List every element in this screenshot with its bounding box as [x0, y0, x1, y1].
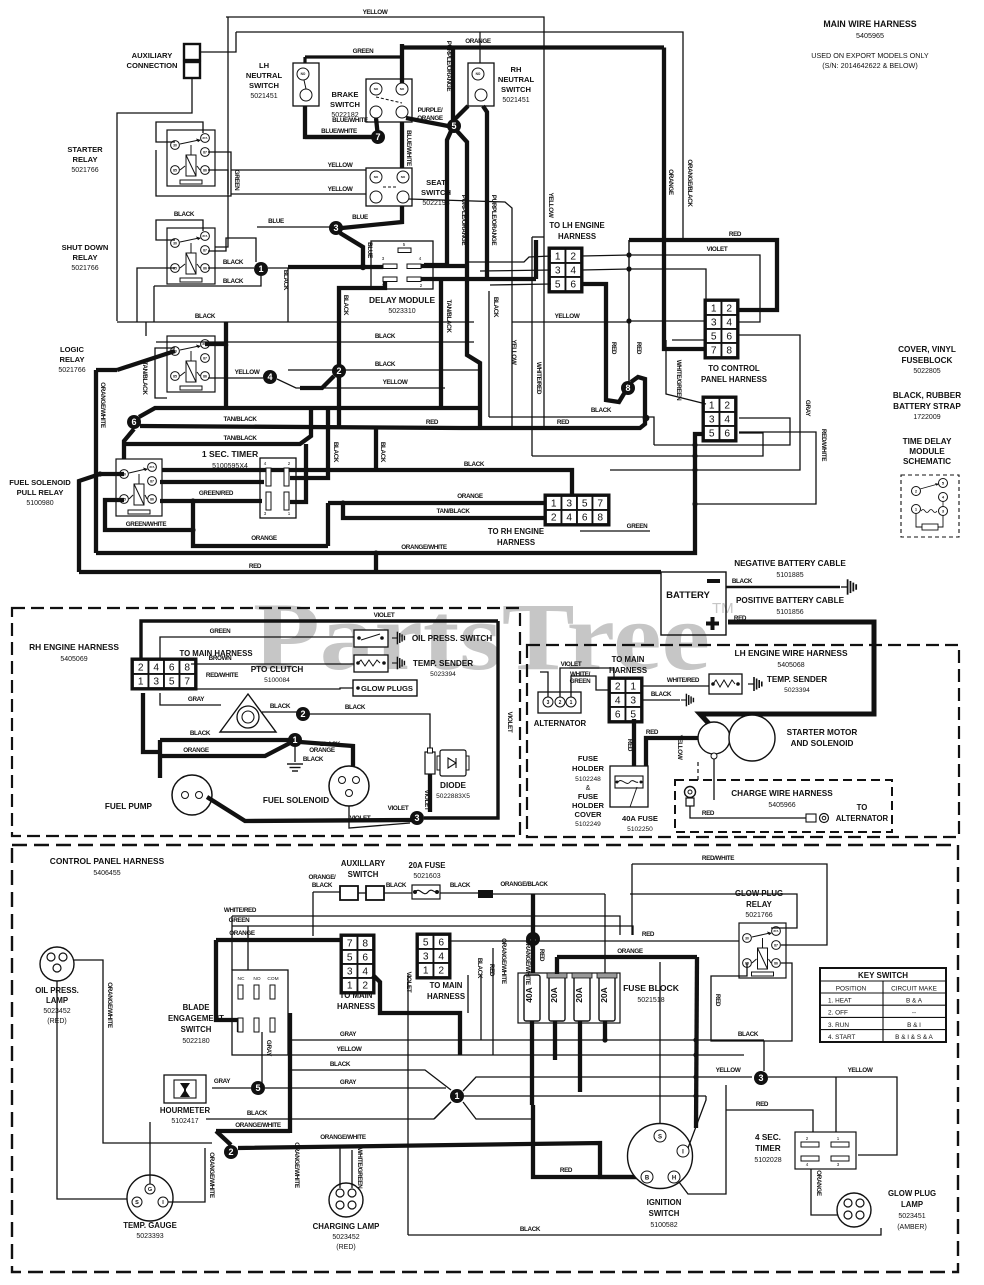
glow relay loop	[711, 963, 764, 1071]
wire alternator 3	[540, 672, 548, 697]
svg-text:VIOLET: VIOLET	[506, 712, 513, 733]
svg-text:40A: 40A	[524, 987, 534, 1003]
wire node2 diagonals	[216, 1131, 231, 1145]
wire orange timer to lamp	[811, 1169, 841, 1215]
svg-text:TO CONTROL: TO CONTROL	[708, 364, 760, 373]
wire white/green	[672, 339, 706, 341]
svg-text:BLACK: BLACK	[223, 278, 244, 285]
svg-text:6: 6	[726, 332, 732, 343]
svg-text:SWITCH: SWITCH	[330, 100, 360, 109]
svg-text:NO: NO	[400, 87, 405, 91]
svg-text:6: 6	[169, 663, 175, 674]
wire charge harness red	[690, 806, 806, 818]
svg-text:BLACK: BLACK	[330, 1061, 351, 1068]
wire thin cell1 left	[467, 256, 551, 262]
wire thick x376 down to black bus	[374, 428, 378, 470]
svg-text:YELLOW: YELLOW	[337, 1046, 362, 1053]
svg-text:5405069: 5405069	[60, 656, 87, 663]
svg-text:2: 2	[228, 1147, 233, 1157]
wire violet long vertical	[407, 975, 409, 1235]
svg-text:BLUE: BLUE	[268, 218, 284, 225]
svg-text:ORANGE/WHITE: ORANGE/WHITE	[106, 982, 113, 1028]
node 6	[127, 415, 141, 429]
wire fuse holder to starter	[646, 738, 702, 766]
wire diode down to node3	[428, 774, 432, 812]
svg-text:ORANGE/WHITE: ORANGE/WHITE	[320, 1134, 366, 1141]
svg-text:3: 3	[555, 266, 561, 277]
svg-text:5: 5	[709, 429, 715, 440]
svg-text:5021766: 5021766	[58, 367, 85, 374]
logic relay loop	[155, 348, 175, 398]
wire gray from conn6	[739, 335, 800, 470]
svg-text:87A: 87A	[203, 136, 208, 140]
svg-text:VIOLET: VIOLET	[423, 790, 430, 811]
svg-text:GRAY: GRAY	[340, 1031, 357, 1038]
wire timer pin2 right up	[290, 408, 328, 478]
wire thick node6 tan/black right	[140, 426, 461, 428]
horizontal runs mid	[288, 1039, 764, 1041]
svg-text:CIRCUIT MAKE: CIRCUIT MAKE	[891, 986, 937, 993]
wire black bottom	[408, 1228, 881, 1235]
svg-text:5102249: 5102249	[575, 821, 601, 828]
wire orange/white thick vertical	[94, 370, 98, 553]
svg-text:S: S	[658, 1134, 662, 1140]
wire yellow label mid	[512, 321, 629, 323]
svg-text:3: 3	[153, 677, 159, 688]
svg-text:30: 30	[745, 936, 749, 940]
svg-text:1: 1	[570, 700, 573, 706]
svg-text:5: 5	[555, 280, 561, 291]
fuel pump	[172, 775, 212, 815]
wire red down to ignition H	[679, 1110, 726, 1194]
fuse holder	[610, 766, 648, 807]
svg-text:FUEL PUMP: FUEL PUMP	[105, 802, 153, 811]
wire node5 up to RH switch	[454, 106, 468, 120]
wire orange thick row	[216, 938, 342, 942]
svg-text:3. RUN: 3. RUN	[828, 1022, 849, 1029]
wire node1 diag	[434, 1102, 451, 1119]
svg-text:RED: RED	[610, 342, 617, 355]
svg-text:DELAY MODULE: DELAY MODULE	[369, 295, 435, 305]
svg-text:6: 6	[362, 953, 368, 964]
node 2	[296, 707, 310, 721]
svg-text:(AMBER): (AMBER)	[897, 1224, 927, 1231]
svg-text:AUXILLARY: AUXILLARY	[341, 859, 386, 868]
svg-text:POSITIVE BATTERY CABLE: POSITIVE BATTERY CABLE	[736, 596, 845, 605]
wire relay 87 right	[781, 944, 788, 946]
svg-text:CONNECTION: CONNECTION	[126, 61, 177, 70]
svg-text:RED: RED	[702, 810, 715, 817]
wire brake sw to node5	[406, 118, 448, 126]
svg-text:6: 6	[615, 710, 621, 721]
svg-text:HOURMETER: HOURMETER	[160, 1106, 211, 1115]
wire orange/white long thick	[238, 1143, 640, 1177]
wire violet right vertical	[424, 621, 498, 818]
wire temp gauge up	[149, 1122, 151, 1184]
svg-text:FUSEBLOCK: FUSEBLOCK	[902, 356, 953, 365]
wire tan/black thick y518	[343, 503, 546, 518]
svg-text:86: 86	[203, 374, 207, 378]
svg-text:1: 1	[347, 981, 353, 992]
svg-text:BLACK: BLACK	[732, 578, 753, 585]
svg-text:5101885: 5101885	[776, 572, 803, 579]
svg-text:WHITE/RED: WHITE/RED	[535, 362, 542, 395]
wire hourmeter black	[206, 1118, 434, 1120]
svg-text:HARNESS: HARNESS	[497, 538, 535, 547]
svg-text:5022805: 5022805	[913, 368, 940, 375]
svg-text:BLACK: BLACK	[223, 259, 244, 266]
svg-text:2: 2	[336, 366, 341, 376]
svg-text:ORANGE/WHITE: ORANGE/WHITE	[524, 939, 531, 985]
wire black node2 right to diode	[309, 714, 430, 753]
svg-text:7: 7	[375, 132, 380, 142]
svg-text:4: 4	[566, 513, 572, 524]
wire seat switch yellow 2	[231, 193, 366, 195]
svg-text:NO: NO	[476, 72, 481, 76]
node7 left wire	[305, 135, 378, 139]
svg-text:YELLOW: YELLOW	[716, 1067, 741, 1074]
svg-text:BLACK: BLACK	[476, 958, 483, 979]
svg-text:GREEN: GREEN	[233, 170, 240, 191]
svg-text:AND SOLENOID: AND SOLENOID	[791, 739, 854, 748]
svg-text:VIOLET: VIOLET	[561, 661, 582, 668]
svg-text:3: 3	[547, 700, 550, 706]
svg-text:RELAY: RELAY	[746, 900, 773, 909]
seat switch box	[366, 168, 412, 206]
wire green	[305, 55, 402, 58]
wire thin x629 to node8	[628, 240, 630, 381]
wire whitered vertical	[532, 236, 544, 238]
svg-text:RED: RED	[538, 949, 545, 962]
svg-text:BLUE/WHITE: BLUE/WHITE	[321, 128, 357, 135]
svg-text:RED: RED	[714, 994, 721, 1007]
svg-text:HARNESS: HARNESS	[558, 232, 596, 241]
svg-text:5023394: 5023394	[784, 687, 810, 694]
wire black red verticals below connB	[467, 975, 469, 1013]
svg-text:ORANGE: ORANGE	[465, 38, 491, 45]
svg-text:6: 6	[570, 280, 576, 291]
svg-text:VIOLET: VIOLET	[350, 815, 371, 822]
wire orange thick top	[402, 45, 664, 49]
wire x629 vertical	[628, 240, 630, 385]
wire redwhite right	[697, 432, 816, 504]
svg-text:NEUTRAL: NEUTRAL	[498, 75, 535, 84]
glow relay 86 wire	[764, 963, 792, 1041]
wire purple/orange node5 down right	[457, 131, 480, 428]
svg-text:H: H	[672, 1175, 676, 1181]
svg-text:BLACK: BLACK	[303, 756, 324, 763]
svg-text:ORANGE: ORANGE	[229, 930, 255, 937]
svg-text:3: 3	[711, 318, 717, 329]
node 1	[254, 262, 268, 276]
svg-text:1: 1	[454, 1091, 459, 1101]
svg-text:TAN/BLACK: TAN/BLACK	[223, 435, 257, 442]
svg-text:6: 6	[582, 513, 588, 524]
svg-text:TEMP. GAUGE: TEMP. GAUGE	[123, 1221, 177, 1230]
svg-text:HARNESS: HARNESS	[337, 1002, 375, 1011]
wire orange/black thin top	[236, 32, 683, 240]
svg-text:87A: 87A	[203, 234, 208, 238]
wire black thin y417	[489, 416, 644, 418]
wire temp gauge right	[168, 1148, 205, 1202]
wire blue from node3 left	[257, 226, 330, 228]
wire green/white relay loop	[105, 500, 193, 530]
wire violet top loop	[141, 621, 498, 660]
wire thick diag node6	[139, 408, 480, 417]
wire conn lower right wires	[654, 418, 790, 445]
svg-text:4: 4	[615, 696, 621, 707]
svg-text:FUSE: FUSE	[578, 754, 598, 763]
svg-text:5023310: 5023310	[388, 308, 415, 315]
svg-text:HOLDER: HOLDER	[572, 801, 605, 810]
svg-text:POSITION: POSITION	[836, 986, 867, 993]
wire thick vertical x226 down	[224, 344, 228, 408]
svg-text:8: 8	[184, 663, 190, 674]
svg-text:87: 87	[203, 248, 207, 252]
starter relay loop wires	[156, 122, 203, 142]
svg-text:ALTERNATOR: ALTERNATOR	[836, 814, 889, 823]
svg-text:5021451: 5021451	[502, 97, 529, 104]
svg-text:BLACK: BLACK	[345, 704, 366, 711]
svg-text:ORANGE/BLACK: ORANGE/BLACK	[500, 881, 548, 888]
svg-text:PTO CLUTCH: PTO CLUTCH	[251, 665, 304, 674]
svg-text:BLACK: BLACK	[375, 361, 396, 368]
fuse block	[518, 973, 620, 1023]
wire white/red long right	[231, 915, 233, 917]
wire thick y553 bus	[96, 434, 704, 553]
svg-text:BLUE/WHITE: BLUE/WHITE	[332, 117, 368, 124]
wire cell6 right loop	[532, 433, 763, 456]
svg-text:SWITCH: SWITCH	[649, 1209, 680, 1218]
svg-text:YELLOW: YELLOW	[235, 369, 260, 376]
wire thick x697 down to ignition H	[696, 957, 697, 1128]
wire brake sw to node7	[376, 118, 378, 137]
svg-text:SHUT DOWN: SHUT DOWN	[62, 243, 109, 252]
svg-text:1: 1	[551, 499, 557, 510]
svg-text:BLACK: BLACK	[195, 313, 216, 320]
wires from LH engine connector left	[480, 270, 551, 271]
svg-text:TIMER: TIMER	[755, 1144, 781, 1153]
wire thick black bus y470	[130, 470, 572, 496]
svg-text:ORANGE/WHITE: ORANGE/WHITE	[235, 1122, 281, 1129]
svg-text:3: 3	[414, 813, 419, 823]
svg-text:GREEN/RED: GREEN/RED	[199, 490, 234, 497]
connector main-control 8pin	[705, 300, 739, 359]
svg-text:FUEL SOLENOID: FUEL SOLENOID	[9, 478, 71, 487]
wire red thick loop right	[629, 240, 777, 310]
svg-text:USED ON EXPORT MODELS ONLY: USED ON EXPORT MODELS ONLY	[811, 51, 929, 60]
wire yellow top	[226, 17, 544, 60]
svg-text:TAN/BLACK: TAN/BLACK	[445, 299, 452, 333]
wire green row	[232, 926, 633, 935]
svg-text:5: 5	[423, 938, 429, 949]
svg-text:2: 2	[615, 682, 621, 693]
svg-text:GLOW PLUGS: GLOW PLUGS	[361, 684, 413, 693]
svg-text:RED: RED	[557, 419, 570, 426]
svg-text:5021603: 5021603	[413, 873, 440, 880]
wire orange/black right	[493, 893, 605, 895]
svg-text:BLACK: BLACK	[174, 211, 195, 218]
svg-text:TAN/BLACK: TAN/BLACK	[223, 416, 257, 423]
wire node2 diag	[300, 376, 334, 388]
svg-text:HARNESS: HARNESS	[609, 666, 647, 675]
wire orange thick to fuse	[557, 955, 697, 959]
svg-text:4: 4	[153, 663, 159, 674]
svg-text:RED: RED	[756, 1101, 769, 1108]
connector control panel A	[341, 935, 375, 994]
svg-text:B: B	[645, 1175, 650, 1181]
wire violet solenoid	[349, 806, 410, 828]
wire purple/orange RH switch down	[483, 106, 487, 277]
svg-text:86: 86	[203, 266, 207, 270]
wire green oil press	[160, 637, 354, 660]
svg-text:BLUE: BLUE	[352, 214, 368, 221]
wire yellow node3 right	[768, 1077, 897, 1155]
svg-text:HOLDER: HOLDER	[572, 764, 605, 773]
svg-text:2: 2	[551, 513, 557, 524]
svg-text:7: 7	[184, 677, 190, 688]
positive cable wire thick	[700, 622, 874, 727]
svg-text:BLACK: BLACK	[386, 882, 407, 889]
svg-text:1: 1	[555, 252, 561, 263]
wire ignition I diag	[688, 1096, 706, 1148]
svg-text:(RED): (RED)	[336, 1244, 355, 1251]
wire black 85 to node1	[208, 267, 254, 269]
wire logic 87A thick up	[205, 322, 226, 344]
svg-text:2. OFF: 2. OFF	[828, 1010, 848, 1017]
svg-text:30: 30	[173, 143, 177, 147]
wire node6 down to relay30	[124, 429, 134, 474]
svg-text:5021766: 5021766	[745, 912, 772, 919]
svg-text:BLUE: BLUE	[366, 242, 373, 258]
node 4	[263, 370, 277, 384]
svg-text:4. START: 4. START	[828, 1034, 856, 1041]
svg-text:ORANGE: ORANGE	[251, 535, 277, 542]
svg-text:RED/WHITE: RED/WHITE	[206, 672, 238, 679]
wire long black bus y322	[117, 321, 474, 323]
svg-text:BLACK: BLACK	[342, 295, 349, 316]
svg-text:5022198: 5022198	[422, 200, 449, 207]
svg-text:SWITCH: SWITCH	[181, 1025, 212, 1034]
svg-text:VIOLET: VIOLET	[374, 612, 395, 619]
svg-text:8: 8	[362, 939, 368, 950]
wire red/white glow plugs	[191, 688, 353, 689]
oil press lamp	[40, 947, 74, 981]
wire gray pto	[160, 693, 221, 705]
wire node1 right row	[463, 1095, 706, 1097]
svg-text:4: 4	[724, 415, 730, 426]
svg-text:TO: TO	[857, 803, 868, 812]
svg-text:1: 1	[292, 735, 297, 745]
svg-text:SCHEMATIC: SCHEMATIC	[903, 457, 951, 466]
svg-text:BLACK: BLACK	[375, 333, 396, 340]
glow plugs box	[353, 680, 417, 696]
svg-text:86: 86	[774, 961, 778, 965]
svg-text:1: 1	[423, 966, 429, 977]
svg-text:BLACK: BLACK	[738, 1031, 759, 1038]
svg-text:ORANGE: ORANGE	[457, 493, 483, 500]
svg-text:7: 7	[597, 499, 603, 510]
wire black node1 to delay pin3	[288, 265, 383, 269]
svg-text:1. HEAT: 1. HEAT	[828, 998, 852, 1005]
dashed crossing	[697, 762, 699, 781]
svg-text:TO MAIN: TO MAIN	[612, 655, 645, 664]
glow plug lamp	[837, 1193, 871, 1227]
svg-text:1: 1	[138, 677, 144, 688]
wire green lower	[580, 530, 650, 532]
svg-text:ORANGE/WHITE: ORANGE/WHITE	[500, 938, 507, 984]
wire thick tanblack2	[124, 408, 311, 444]
wire node3 bus left	[207, 797, 412, 821]
svg-text:BLACK: BLACK	[520, 1226, 541, 1233]
svg-text:4: 4	[362, 967, 368, 978]
svg-text:1: 1	[258, 264, 263, 274]
svg-text:5100582: 5100582	[650, 1222, 677, 1229]
svg-text:2: 2	[724, 401, 730, 412]
svg-text:PURPLE/ORANGE: PURPLE/ORANGE	[460, 195, 467, 246]
wire aux to bus	[200, 32, 236, 52]
svg-text:GRAY: GRAY	[804, 400, 811, 417]
svg-text:SWITCH: SWITCH	[421, 188, 451, 197]
svg-text:FUSE: FUSE	[578, 792, 598, 801]
svg-text:YELLOW: YELLOW	[383, 379, 408, 386]
svg-text:BLACK: BLACK	[450, 882, 471, 889]
svg-text:8: 8	[625, 383, 630, 393]
svg-text:3: 3	[333, 223, 338, 233]
battery	[661, 572, 726, 635]
svg-text:RED: RED	[488, 964, 495, 977]
wire purple/orange node5 to delay pin4	[424, 131, 451, 265]
svg-text:ORANGE/: ORANGE/	[309, 874, 337, 881]
wire LH switch top green	[303, 57, 306, 63]
svg-text:IGNITION: IGNITION	[647, 1198, 682, 1207]
svg-text:30: 30	[173, 241, 177, 245]
svg-text:NO: NO	[301, 72, 306, 76]
svg-text:B & I: B & I	[907, 1022, 921, 1029]
svg-text:RED: RED	[729, 231, 742, 238]
svg-text:RH: RH	[511, 65, 522, 74]
svg-text:WHITE/RED: WHITE/RED	[224, 907, 257, 914]
wire RH switch top	[479, 33, 481, 64]
svg-text:YELLOW: YELLOW	[328, 162, 353, 169]
svg-text:1: 1	[709, 401, 715, 412]
wire orange elbow up to bus	[326, 503, 330, 546]
wire delay right thin	[488, 291, 490, 417]
wire green vertical starter to shutdown	[208, 170, 228, 247]
svg-text:STARTER: STARTER	[67, 145, 103, 154]
wire white/red row	[232, 916, 620, 935]
svg-text:GREEN: GREEN	[570, 678, 591, 685]
svg-text:COVER: COVER	[574, 810, 602, 819]
svg-text:6: 6	[724, 429, 730, 440]
svg-text:YELLOW: YELLOW	[848, 1067, 873, 1074]
svg-text:SEAT: SEAT	[426, 178, 446, 187]
wire node3 to delay module blue	[340, 233, 363, 267]
svg-text:3: 3	[566, 499, 572, 510]
svg-text:5102417: 5102417	[171, 1118, 198, 1125]
wire white/green alternator	[571, 676, 610, 697]
svg-text:4: 4	[570, 266, 576, 277]
svg-text:86: 86	[150, 497, 154, 501]
delay module U1	[371, 241, 433, 289]
alternator	[538, 692, 581, 713]
svg-text:GREEN: GREEN	[229, 917, 250, 924]
connector TO LH ENGINE	[549, 248, 583, 293]
svg-text:NO: NO	[374, 87, 379, 91]
svg-text:2: 2	[559, 700, 562, 706]
wire delay pin4 right	[421, 264, 467, 268]
svg-text:LOGIC: LOGIC	[60, 345, 85, 354]
